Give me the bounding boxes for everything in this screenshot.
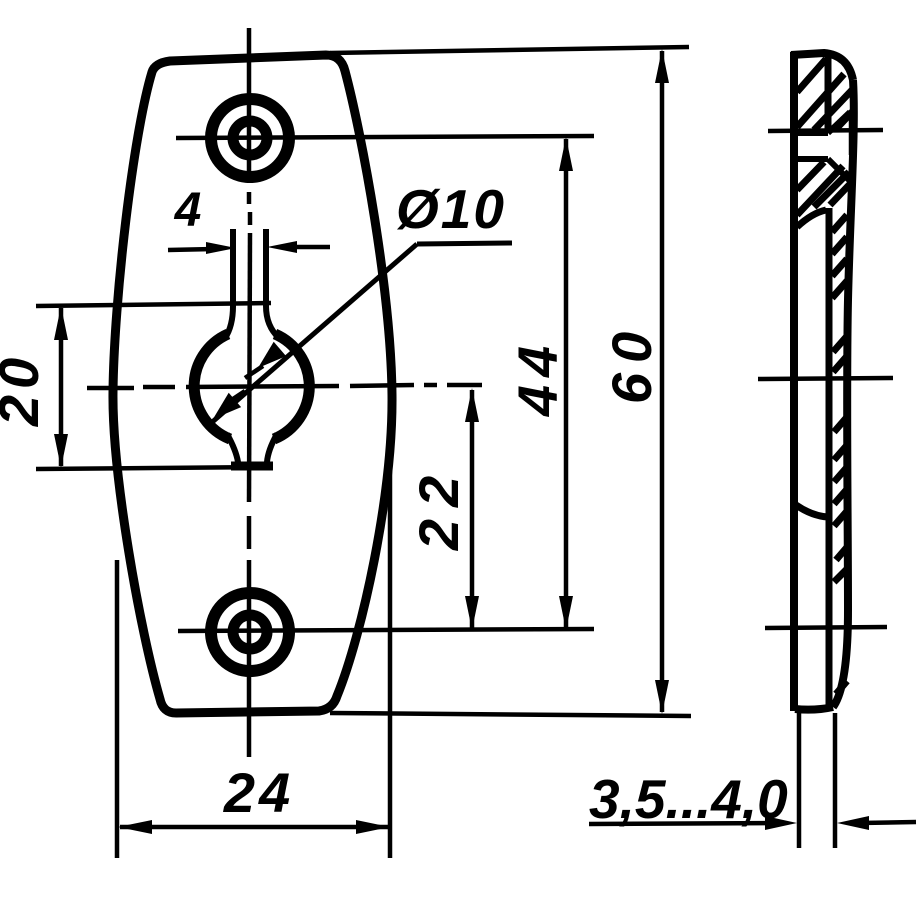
side view inner line top	[825, 57, 832, 131]
bottom hole	[211, 593, 289, 671]
side view inner line	[796, 208, 829, 709]
dimension 4	[168, 184, 330, 254]
side view centerline bottom	[765, 627, 887, 628]
thickness extension lines	[799, 713, 835, 848]
side view back edge	[790, 52, 798, 711]
svg-text:Ø10: Ø10	[396, 178, 506, 240]
dimension 44	[506, 137, 573, 630]
label dia 10 with leader	[210, 178, 512, 424]
vertical centerline	[249, 28, 250, 757]
extension line 60 top	[330, 47, 689, 53]
side view channel hatching	[832, 215, 848, 694]
dim 20 extension lines	[36, 303, 272, 469]
extension line 60 bottom	[330, 713, 691, 716]
center hole horizontal centerline	[87, 385, 482, 388]
dimension 24	[118, 761, 390, 834]
center keyhole	[194, 229, 309, 467]
dimension 20	[0, 306, 68, 468]
dimension 22	[407, 388, 479, 630]
svg-text:22: 22	[407, 464, 470, 551]
side view centerline mid	[758, 378, 893, 379]
side view top hole gap	[796, 112, 851, 181]
svg-text:20: 20	[0, 352, 50, 427]
top hole	[211, 99, 289, 177]
dimension 3.5-4.0	[589, 768, 916, 830]
side view bottom edge	[795, 707, 833, 710]
side view hatching top block	[797, 59, 853, 130]
side view top edge	[791, 53, 853, 80]
svg-text:4: 4	[174, 184, 202, 237]
side view front edge	[833, 80, 854, 707]
svg-text:44: 44	[506, 338, 569, 417]
dimension 60	[600, 49, 669, 714]
svg-text:3,5...4,0: 3,5...4,0	[589, 768, 788, 830]
dim 24 extension lines	[117, 440, 390, 858]
bottom hole centerline / ext 22 44	[178, 629, 594, 631]
side view hatching second block	[797, 162, 850, 215]
svg-text:24: 24	[223, 761, 294, 824]
plate outline (front view)	[113, 55, 392, 713]
top hole centerline / ext 44	[176, 136, 594, 138]
side view centerline top	[768, 130, 883, 131]
svg-text:60: 60	[600, 322, 663, 404]
